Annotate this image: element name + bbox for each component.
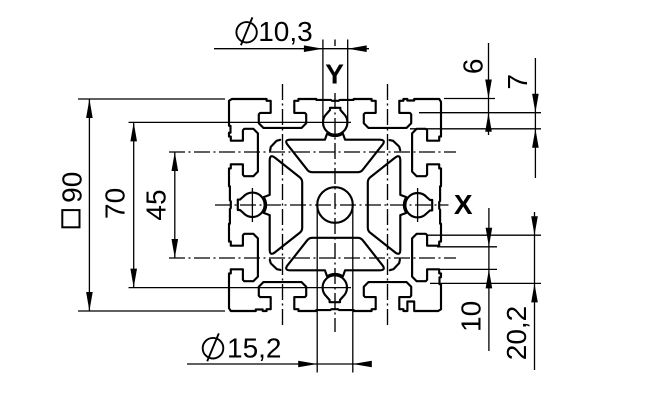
right cavity <box>368 156 407 254</box>
right bore tick <box>417 188 419 222</box>
dim 70 line <box>133 122 135 287</box>
dim 70 text <box>100 188 131 219</box>
dim 6 line <box>488 43 490 135</box>
vertical axis centerline <box>334 93 336 332</box>
svg-text:70: 70 <box>100 188 131 219</box>
svg-text:20,2: 20,2 <box>501 306 532 361</box>
left bore tick <box>251 188 253 222</box>
dim d10,3 extension lines <box>322 40 324 122</box>
dim 10 text <box>456 301 487 332</box>
corner web face SW <box>270 260 281 270</box>
svg-text:10,3: 10,3 <box>258 16 313 47</box>
dim d15,2 text <box>203 332 282 363</box>
svg-text:90: 90 <box>57 172 88 203</box>
dim 6/7 extension lines <box>444 98 495 100</box>
svg-text:15,2: 15,2 <box>227 332 282 363</box>
dim d15,2 extension lines <box>316 206 318 373</box>
dim 6 text <box>458 59 489 75</box>
slot centerline y=152 <box>169 151 456 153</box>
dim 20,2 line <box>534 212 536 370</box>
dim 10/20,2 extension lines <box>437 246 497 248</box>
right bore keyhole pocket d10.3 <box>405 193 432 217</box>
dim 45 text <box>140 189 171 220</box>
svg-text:Y: Y <box>325 58 344 89</box>
corner web face NE <box>390 140 401 150</box>
slot centerline y=258 <box>169 257 456 259</box>
central bore d15.2 <box>317 187 353 223</box>
svg-text:45: 45 <box>140 189 171 220</box>
corner web face SE <box>390 260 400 271</box>
bottom cavity <box>286 238 384 277</box>
profile outer contour with T-slots <box>229 99 441 311</box>
dim 7 line <box>534 58 536 178</box>
bottom bore keyhole pocket d10.3 <box>323 275 347 302</box>
left bore keyhole pocket d10.3 <box>238 193 265 217</box>
svg-text:X: X <box>454 189 473 220</box>
dim 10 line <box>488 208 490 351</box>
corner web face NW <box>270 140 280 151</box>
svg-text:10: 10 <box>456 301 487 332</box>
slot centerline x=387.5 <box>387 84 389 326</box>
dim 45 line <box>174 152 176 258</box>
dim sq90 extension lines <box>78 98 225 100</box>
vertical axis centerline (upper stub) <box>334 40 336 47</box>
slot centerline x=282.5 <box>282 84 284 326</box>
dim 20,2 text <box>501 306 532 361</box>
top cavity <box>286 134 384 173</box>
dim 70 extension / bore centerline y=122.4 <box>129 121 352 123</box>
dim sq90 text <box>62 210 79 227</box>
dim d15,2 line <box>187 363 371 365</box>
horizontal axis centerline <box>215 204 449 206</box>
dim sq90 line <box>88 99 90 311</box>
svg-text:6: 6 <box>458 59 489 75</box>
top bore keyhole pocket d10.3 <box>323 108 347 135</box>
svg-text:7: 7 <box>502 74 533 90</box>
dim 7 text <box>502 74 533 90</box>
dim 70 extension / bore centerline y=287.6 <box>129 287 352 289</box>
dim d10,3 text <box>236 16 312 47</box>
dim d10,3 line <box>214 48 369 50</box>
left cavity <box>264 156 303 254</box>
